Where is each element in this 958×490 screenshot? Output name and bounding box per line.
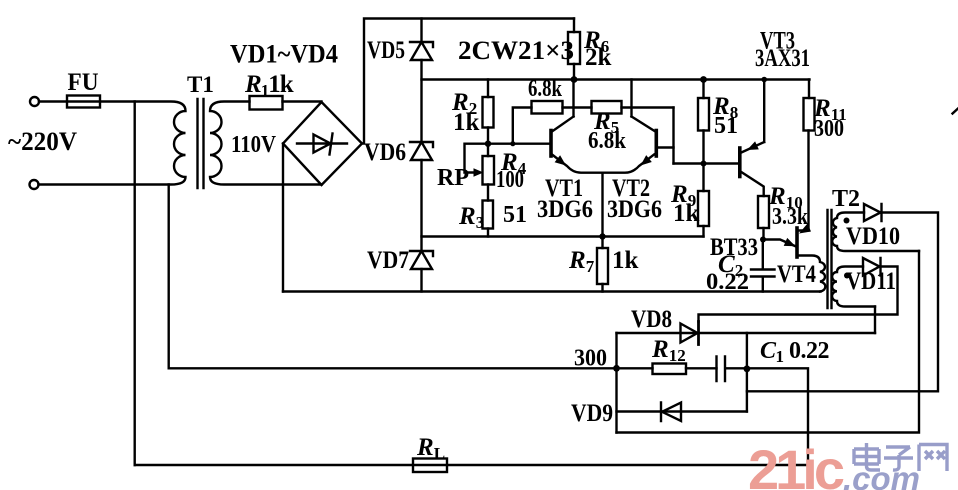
resistor R6 2k: [573, 19, 575, 80]
wire zener column top: [420, 19, 422, 43]
bridge inner diode: [297, 134, 347, 155]
node base line / R8-R9 column: [701, 161, 707, 167]
diode VD8: [681, 324, 698, 343]
T1 core: [198, 99, 204, 188]
svg-text:C1 0.22: C1 0.22: [760, 338, 829, 366]
svg-text:VD7: VD7: [367, 247, 409, 274]
node VT3 emitter at rail: [761, 77, 767, 83]
bridge rectifier VD1~VD4 diamond: [283, 102, 362, 185]
resistor R5 6.8k: [574, 106, 674, 108]
wire bridge - output down: [282, 144, 284, 292]
capacitor C1 0.22: [717, 357, 747, 382]
zener VD5: [410, 42, 433, 60]
wire UJT emitter: [763, 240, 796, 247]
svg-text:110V: 110V: [231, 132, 277, 158]
svg-text:VT4: VT4: [777, 261, 816, 288]
svg-text:3DG6: 3DG6: [537, 196, 593, 223]
wire dropper from AC line N down to 300 wire: [167, 185, 169, 369]
node rail3 (negative rail y=291.5): [283, 290, 821, 292]
wire AC top + transformer T1 primary winding: [39, 102, 186, 185]
svg-text:VD10: VD10: [846, 223, 900, 250]
wire VD10 cathode right and down: [747, 213, 938, 392]
wire zener column VD5-VD6: [420, 60, 422, 142]
wire UJT base1 + transformer T2 primary winding: [797, 256, 825, 292]
node at VT1 base wire: [510, 141, 515, 146]
wire VT1 base: [488, 142, 550, 144]
wire bridge + output up to top rail: [362, 19, 574, 144]
wire joined emitters down: [601, 173, 603, 237]
node R10/C2/emitter junction: [760, 237, 766, 243]
wire VT2 collector riser: [630, 80, 632, 117]
wire zener column VD6-VD7: [420, 160, 422, 251]
node R6 bottom junction: [571, 76, 578, 83]
svg-text:RP: RP: [437, 165, 469, 191]
svg-text:VD9: VD9: [571, 400, 613, 427]
potentiometer RP wiper: [465, 144, 489, 173]
resistor RL: [413, 459, 447, 473]
wire R11 bottom to UJT base2: [798, 131, 809, 231]
svg-text:3.3k: 3.3k: [772, 204, 809, 230]
wire R5 right drop to VT2 base: [672, 108, 674, 164]
svg-text:1k: 1k: [453, 109, 480, 136]
wire VD8 line: [617, 332, 876, 334]
wire R1 to bridge: [283, 100, 322, 102]
transistor VT2 3DG6: [654, 131, 658, 157]
svg-text:T1: T1: [187, 72, 214, 97]
node rail2 (regulated rail y=79.5): [422, 78, 810, 80]
resistor R1: [250, 96, 283, 110]
transformer T2 secondary 1 winding: [832, 213, 919, 252]
svg-text:51: 51: [714, 113, 738, 139]
node emitter junction dot: [599, 233, 605, 239]
svg-text:300: 300: [574, 346, 607, 372]
svg-text:VD11: VD11: [846, 268, 896, 295]
terminal top-left: [30, 97, 39, 106]
fuse FU: [67, 96, 100, 108]
svg-text:0.22: 0.22: [706, 269, 749, 295]
wire 300: [169, 367, 617, 369]
node R2/R4/RP junction: [485, 141, 491, 147]
svg-text:1k: 1k: [673, 200, 700, 227]
resistor R3 51: [483, 201, 494, 229]
svg-text:VD8: VD8: [631, 306, 672, 333]
wire VT1 collector riser: [572, 80, 574, 117]
wire secondary1 bottom down and left: [617, 251, 920, 433]
wire VD9 line: [617, 410, 747, 412]
transistor VT1 3DG6: [549, 131, 553, 157]
diode VD9: [661, 403, 681, 422]
svg-text:R11k: R11k: [244, 71, 294, 100]
resistor R4 100 (rheostat body): [487, 144, 489, 201]
svg-text:300: 300: [814, 116, 844, 142]
artifact right edge tick: [953, 109, 958, 114]
transformer T2 secondary 2 winding: [832, 267, 875, 307]
resistor R8 51: [702, 80, 704, 192]
svg-text:VD1~VD4: VD1~VD4: [230, 40, 338, 69]
node R8 top: [700, 76, 707, 83]
node rail4 (first stage emitter rail y=236.5): [422, 235, 704, 237]
node C1 right junction: [744, 365, 751, 372]
svg-text:2CW21×3: 2CW21×3: [458, 36, 574, 65]
resistor 6.8k (feedback to VT1 base): [513, 108, 574, 144]
watermark chinese 电子网: [854, 443, 947, 471]
UJT base2 corner arrow artifact: [799, 224, 811, 234]
capacitor C2 0.22: [751, 240, 775, 292]
terminal bottom-left: [30, 180, 39, 189]
svg-text:VD5: VD5: [367, 37, 405, 64]
wire VT2 base tap: [658, 146, 674, 148]
svg-text:VD6: VD6: [364, 139, 406, 166]
svg-text:FU: FU: [68, 69, 99, 96]
svg-text:2k: 2k: [585, 44, 612, 71]
wire RL rail: [135, 464, 808, 466]
resistor R11 300: [808, 80, 810, 99]
wire base line to VT3: [674, 162, 740, 164]
transistor VT3 3AX31: [738, 148, 742, 177]
wire trigger column: [615, 333, 617, 433]
wire C1 node column: [746, 333, 748, 412]
wire VD11 cathode to VD8 cathode: [699, 267, 898, 322]
svg-text:100: 100: [496, 167, 524, 193]
svg-text:.com: .com: [843, 460, 920, 490]
resistor R7 1k: [601, 237, 603, 292]
svg-text:6.8k: 6.8k: [528, 76, 563, 102]
unijunction transistor VT4 BT33 bar: [795, 228, 799, 257]
resistor R10 3.3k: [758, 196, 769, 228]
wire secondary2 bottom down: [874, 307, 876, 334]
resistor R2 1k: [487, 80, 489, 144]
zener VD7: [410, 251, 433, 269]
zener VD6: [410, 142, 433, 160]
svg-text:T2: T2: [832, 186, 860, 212]
diode VD11: [863, 258, 881, 276]
wire dropper from AC line L down to RL rail: [133, 102, 135, 466]
T2 core: [828, 210, 832, 308]
wire C1 node to RL rail: [747, 368, 808, 465]
svg-text:3AX31: 3AX31: [755, 45, 810, 72]
svg-text:~220V: ~220V: [8, 127, 77, 156]
svg-text:1k: 1k: [612, 247, 639, 274]
wire zener column VD7 to bottom rail: [420, 269, 422, 292]
node T2 secondary1 polarity dot: [844, 218, 850, 224]
svg-text:6.8k: 6.8k: [588, 128, 627, 154]
svg-text:21ic: 21ic: [748, 438, 844, 490]
node 300/R12 junction: [613, 365, 620, 372]
svg-text:3DG6: 3DG6: [607, 196, 662, 223]
svg-text:51: 51: [503, 202, 527, 228]
resistor R12: [617, 367, 717, 369]
transformer T1 secondary winding 110V: [210, 102, 322, 185]
diode VD10: [864, 204, 882, 221]
resistor R9 1k: [698, 191, 709, 226]
node T2 secondary2 polarity dot: [844, 273, 850, 279]
